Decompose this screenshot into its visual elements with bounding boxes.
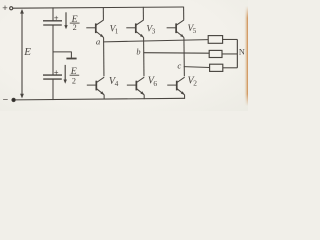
transistor V4 (lower switch leg 1) xyxy=(95,81,97,91)
page edge shading (book scan right margin) xyxy=(244,6,248,106)
svg-text:−: − xyxy=(3,94,9,105)
wire: capacitor midpoint link xyxy=(52,25,54,75)
wire: load phase b to neutral xyxy=(222,53,237,55)
wire: phase a to load resistor xyxy=(103,40,208,42)
wire: phase c to load resistor xyxy=(184,66,210,69)
svg-text:+: + xyxy=(54,14,59,23)
svg-text:1: 1 xyxy=(115,29,119,36)
transistor V2 (lower switch leg 3) xyxy=(176,81,178,91)
wire: top bus to capacitor C1 xyxy=(52,7,54,20)
wire: load phase c to neutral xyxy=(223,67,238,69)
wire: leg 2 middle (V3 emitter to V6 collector) xyxy=(143,38,145,77)
svg-text:6: 6 xyxy=(153,79,157,88)
wire: positive DC bus (top rail) xyxy=(13,7,184,8)
transistor V1 (upper switch leg 1) xyxy=(95,23,97,33)
svg-text:b: b xyxy=(136,47,140,56)
resistor: load phase c (box) xyxy=(210,64,223,71)
transistor V6 (lower switch leg 2) xyxy=(135,81,137,91)
wire: neutral bus vertical xyxy=(236,39,238,67)
svg-text:3: 3 xyxy=(152,29,156,36)
svg-text:+: + xyxy=(54,68,59,77)
wire: leg 2 upper (bus to V3 collector) xyxy=(142,7,144,20)
svg-text:+: + xyxy=(2,3,8,14)
terminal: negative input circle xyxy=(12,98,16,102)
terminal: positive input circle xyxy=(10,7,13,10)
resistor: load phase a (box) xyxy=(208,36,222,44)
wire: leg 1 middle (V1 emitter to V4 collector) xyxy=(103,38,105,77)
resistor: load phase b (box) xyxy=(209,50,222,57)
wire: phase b to load resistor xyxy=(143,52,209,55)
svg-text:E: E xyxy=(23,46,31,58)
wire: leg 2 lower (V6 emitter to bottom bus) xyxy=(143,95,145,99)
label E/2 with down arrow (lower capacitor voltage) xyxy=(64,65,66,82)
wire: leg 1 upper (bus to V1 collector) xyxy=(102,7,104,20)
capacitor C2 (lower, E/2) plates xyxy=(43,74,62,76)
wire: capacitor C2 to bottom bus xyxy=(52,79,54,100)
label E/2 with down arrow (upper capacitor voltage) xyxy=(65,12,67,27)
svg-text:2: 2 xyxy=(73,23,77,32)
svg-text:c: c xyxy=(177,61,181,71)
svg-text:2: 2 xyxy=(193,79,197,88)
capacitor C1 (upper, E/2) plates xyxy=(43,20,62,22)
voltage arrow E (double-headed, between buses) xyxy=(21,10,23,97)
svg-text:2: 2 xyxy=(72,77,76,86)
wire: leg 1 lower (V4 emitter to bottom bus) xyxy=(103,95,105,100)
transistor V3 (upper switch leg 2) xyxy=(135,23,137,33)
wire: load phase a to neutral xyxy=(223,38,238,40)
node: capacitor midpoint stub with end bar xyxy=(53,52,71,58)
wire: leg 3 lower (V2 emitter to bottom bus) xyxy=(184,95,186,99)
svg-text:5: 5 xyxy=(193,28,197,35)
wire: leg 3 middle (V5 emitter to V2 collector) xyxy=(183,38,185,77)
svg-text:N: N xyxy=(239,47,245,56)
transistor V5 (upper switch leg 3) xyxy=(175,23,177,33)
wire: leg 3 upper (bus to V5 collector) xyxy=(183,7,185,20)
svg-text:4: 4 xyxy=(115,79,119,88)
svg-text:a: a xyxy=(96,36,101,46)
wire: negative DC bus (bottom rail) xyxy=(15,98,185,100)
